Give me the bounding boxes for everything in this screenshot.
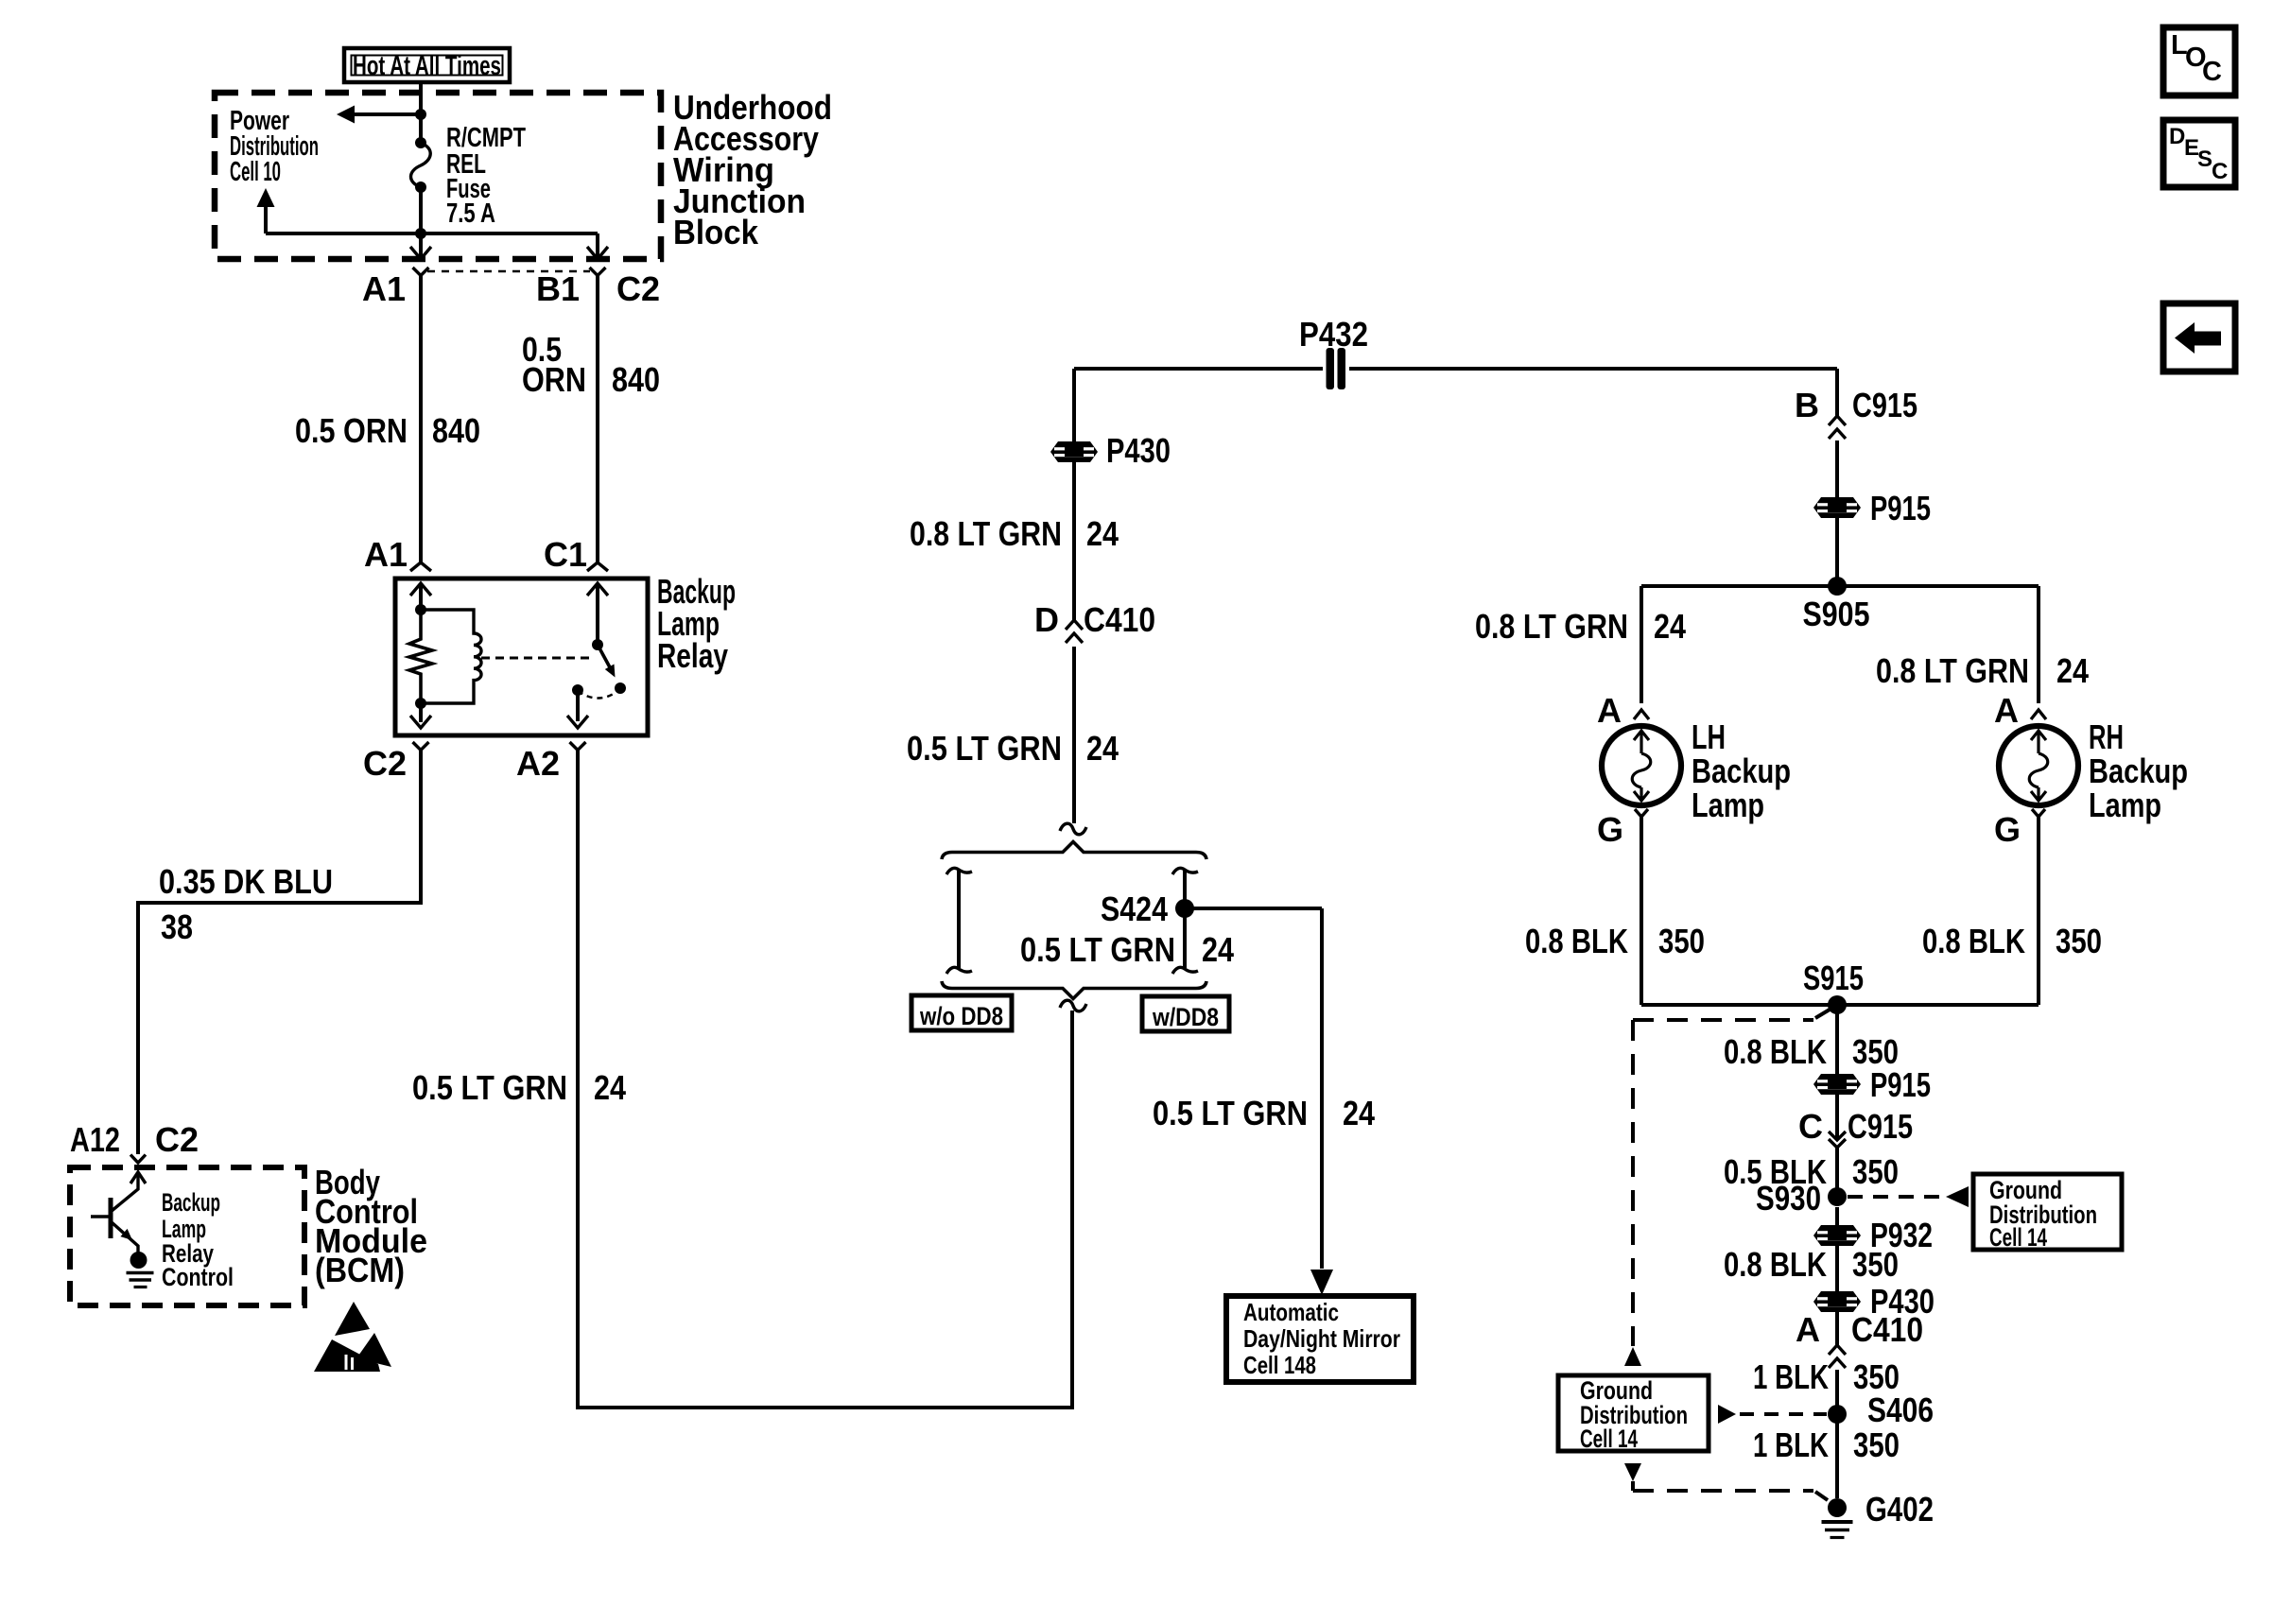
switch movable arm: [598, 645, 616, 678]
connector dashed tie A1-B1: [427, 270, 590, 273]
svg-text:Backup: Backup: [162, 1188, 220, 1217]
node splice S930: [1828, 1187, 1847, 1206]
svg-text:0.8 BLK: 0.8 BLK: [1922, 922, 2025, 960]
label box Automatic Day/Night Mirror Cell 148: [1226, 1296, 1414, 1382]
label box w/DD8: [1142, 996, 1229, 1031]
svg-text:24: 24: [1086, 729, 1119, 768]
svg-text:C: C: [1798, 1107, 1823, 1146]
connector C2 pin A1 of junction block: [413, 268, 429, 276]
svg-text:A: A: [1597, 691, 1622, 730]
node coil top junction: [415, 604, 426, 615]
label Body Control Module (BCM): [315, 1163, 427, 1289]
svg-text:38: 38: [161, 907, 193, 946]
wire label 1 BLK 350 (above S406): [1753, 1357, 1900, 1396]
pin arrow into BCM: [130, 1172, 146, 1183]
svg-text:Cell 148: Cell 148: [1243, 1351, 1316, 1379]
connector C410 pin D (double chevron): [1066, 620, 1083, 643]
ESD sensitivity symbol: [314, 1302, 391, 1372]
svg-text:0.5 LT GRN: 0.5 LT GRN: [412, 1068, 567, 1107]
svg-text:C: C: [2212, 159, 2228, 184]
svg-text:7.5 A: 7.5 A: [446, 199, 495, 229]
arrow down at A1 terminal: [410, 247, 431, 259]
svg-text:LH: LH: [1692, 717, 1726, 756]
svg-text:0.8 BLK: 0.8 BLK: [1724, 1032, 1827, 1071]
svg-text:G: G: [1994, 810, 2021, 849]
svg-text:G402: G402: [1865, 1490, 1934, 1529]
svg-text:G: G: [1597, 810, 1623, 849]
svg-text:0.5 LT GRN: 0.5 LT GRN: [907, 729, 1062, 768]
svg-text:24: 24: [1202, 930, 1234, 969]
transistor Q1 base lead: [91, 1215, 111, 1218]
lamp E2 RH Backup Lamp: [1999, 726, 2078, 805]
wire dashed ground distribution to G402: [1633, 1491, 1828, 1500]
connector chevron into RH lamp: [2031, 710, 2046, 719]
pin arrow A1 inside relay: [410, 583, 431, 610]
svg-text:P432: P432: [1299, 315, 1368, 354]
label Underhood Accessory Wiring Junction Block: [673, 88, 832, 251]
transistor Q1 collector: [112, 1172, 138, 1211]
svg-text:A1: A1: [364, 535, 408, 574]
lamp filament RH: [2029, 731, 2048, 801]
svg-text:Lamp: Lamp: [2089, 786, 2161, 824]
wire w/o DD8 branch bar: [946, 868, 972, 974]
svg-text:0.5 LT GRN: 0.5 LT GRN: [1153, 1094, 1308, 1132]
svg-text:24: 24: [1343, 1094, 1375, 1132]
connector pass-through P932: [1813, 1225, 1861, 1246]
arrow down at C2 pin inside relay: [410, 716, 431, 728]
svg-text:S930: S930: [1756, 1179, 1821, 1218]
wire P932 to P430: [1835, 1246, 1839, 1291]
svg-text:C915: C915: [1852, 386, 1917, 424]
wire coil bottom to C2 pin: [419, 703, 423, 722]
wire C915 to P915: [1835, 441, 1839, 497]
node splice S915: [1828, 995, 1847, 1014]
lamp E1 LH Backup Lamp: [1602, 726, 1681, 805]
connector chevron A1 into relay: [410, 562, 431, 571]
svg-text:350: 350: [1852, 1152, 1899, 1191]
node coil bottom junction: [415, 698, 426, 709]
wire P430 to C410-D: [1072, 462, 1076, 620]
svg-text:C2: C2: [363, 744, 407, 783]
brace variant join (bottom): [942, 981, 1206, 999]
node junction dot power branch: [415, 109, 426, 120]
label box w/o DD8: [911, 995, 1012, 1030]
wire label 0.5 LT GRN 24 in brace: [1020, 930, 1234, 969]
wire dashed throw arc: [578, 689, 620, 699]
svg-text:24: 24: [1086, 514, 1119, 553]
wire label 0.8 LT GRN 24 (RH): [1876, 651, 2089, 690]
wire label 0.8 BLK 350 (LH): [1525, 922, 1705, 960]
svg-text:Day/Night Mirror: Day/Night Mirror: [1243, 1324, 1400, 1353]
wire label 0.5 LT GRN 24 (mirror feed): [1153, 1094, 1375, 1132]
svg-text:Automatic: Automatic: [1243, 1298, 1339, 1326]
wire stub down at B1 feed: [596, 233, 599, 256]
connector C410 pin A (double chevron up): [1829, 1345, 1846, 1368]
wire S905 to RH lamp: [2037, 586, 2040, 703]
wire break squiggle above brace: [1060, 823, 1086, 835]
svg-text:P915: P915: [1870, 489, 1931, 527]
connector pass-through P915 (ground path): [1813, 1074, 1861, 1095]
wire label 0.8 BLK 350 (below P932): [1724, 1245, 1899, 1284]
svg-text:A1: A1: [362, 269, 406, 308]
svg-text:Cell 10: Cell 10: [230, 157, 281, 187]
node switch pivot: [592, 639, 603, 650]
svg-text:350: 350: [2056, 922, 2102, 960]
transistor Q1 base bar: [109, 1198, 113, 1238]
svg-text:S: S: [2197, 147, 2212, 172]
label RH Backup Lamp: [2089, 717, 2188, 824]
connector C915 pin B (double chevron): [1829, 416, 1846, 439]
svg-text:C915: C915: [1848, 1107, 1913, 1146]
svg-text:0.8 LT GRN: 0.8 LT GRN: [910, 514, 1062, 553]
svg-text:C410: C410: [1084, 600, 1155, 639]
wire S905 to LH lamp: [1640, 586, 1643, 703]
svg-text:0.8 BLK: 0.8 BLK: [1525, 922, 1628, 960]
connector chevron C1 into relay: [587, 562, 608, 571]
svg-text:C1: C1: [544, 535, 587, 574]
wire A1 to relay: [419, 276, 423, 563]
wire dashed actuation link: [481, 657, 594, 660]
value label R/CMPT REL Fuse 7.5 A: [446, 123, 526, 229]
wire dashed S930 to ground distribution: [1848, 1195, 1944, 1199]
svg-text:A12: A12: [70, 1120, 120, 1159]
svg-text:Backup: Backup: [1692, 752, 1791, 790]
svg-text:840: 840: [432, 411, 480, 450]
pin arrow C1 inside relay: [587, 583, 608, 645]
wire RH lamp to S915: [2037, 817, 2040, 1005]
svg-text:w/o DD8: w/o DD8: [919, 1002, 1003, 1030]
connector pin A2 below relay: [570, 742, 586, 751]
wire LH lamp to S915: [1640, 817, 1643, 1005]
label LH Backup Lamp: [1692, 717, 1791, 824]
connector pass-through P915: [1813, 497, 1861, 518]
label Backup Lamp Relay: [657, 572, 736, 675]
svg-text:P430: P430: [1106, 431, 1171, 470]
svg-text:S424: S424: [1101, 890, 1168, 928]
label box Ground Distribution Cell 14 (right): [1973, 1174, 2122, 1252]
arrow up into ground distribution box: [1624, 1347, 1641, 1366]
wire break squiggle below brace: [1060, 1000, 1086, 1011]
svg-text:0.35 DK BLU: 0.35 DK BLU: [159, 862, 333, 901]
wire C2 relay to BCM: [138, 751, 421, 1155]
wire S915 to P915: [1835, 1005, 1839, 1074]
svg-text:350: 350: [1852, 1245, 1899, 1284]
svg-text:D: D: [1034, 600, 1059, 639]
svg-text:ORN: ORN: [522, 360, 586, 399]
label box Ground Distribution Cell 14 (left): [1558, 1375, 1709, 1453]
wire branch to Power Distribution: [354, 112, 421, 116]
svg-text:Relay: Relay: [657, 636, 728, 675]
arrow to Power Distribution Cell 10: [337, 106, 355, 124]
relay K1 Backup Lamp Relay box: [395, 579, 648, 735]
brace variant split (top): [942, 842, 1206, 860]
icon box LOC: [2163, 27, 2235, 95]
wire B1/C2 to relay: [596, 276, 599, 563]
svg-text:Hot At All Times: Hot At All Times: [353, 51, 501, 81]
wire P915 to C915-C: [1835, 1095, 1839, 1140]
component box U2 Body Control Module (dashed): [70, 1167, 304, 1305]
connector pass-through P430 (ground path): [1813, 1291, 1861, 1312]
wire from Hot At All Times into junction block: [419, 82, 423, 143]
svg-text:S915: S915: [1803, 959, 1864, 997]
svg-text:24: 24: [2056, 651, 2089, 690]
label Power Distribution Cell 10: [230, 106, 319, 187]
svg-text:A: A: [1994, 691, 2019, 730]
wire dashed S915 to ground distribution (vertical): [1631, 1020, 1635, 1346]
svg-text:0.8 LT GRN: 0.8 LT GRN: [1876, 651, 2029, 690]
wire P432 riser: [1072, 369, 1076, 441]
wire down to C915-B: [1835, 369, 1839, 416]
resistor relay coil suppression: [409, 610, 432, 703]
wire horizontal feed inside junction block: [266, 232, 598, 235]
wire label 0.5 ORN 840 (left): [295, 411, 480, 450]
arrow up to Power Distribution Cell 10: [257, 188, 275, 233]
svg-text:0.5 LT GRN: 0.5 LT GRN: [1020, 930, 1175, 969]
wire label 0.8 BLK 350 (RH): [1922, 922, 2102, 960]
connector pin C2 below relay: [413, 742, 429, 751]
ground G402: [1822, 1498, 1853, 1538]
node switch throw contact: [572, 684, 583, 696]
wire label 0.8 LT GRN 24 (LH): [1475, 607, 1686, 646]
svg-text:Lamp: Lamp: [1692, 786, 1764, 824]
svg-text:B1: B1: [536, 269, 580, 308]
svg-text:0.8 BLK: 0.8 BLK: [1724, 1245, 1827, 1284]
svg-text:C2: C2: [155, 1120, 199, 1159]
wire dashed to S406: [1740, 1412, 1827, 1416]
arrow down from ground distribution box: [1624, 1463, 1641, 1491]
icon box back arrow: [2163, 303, 2235, 371]
wire label 0.8 LT GRN 24 above C410: [910, 514, 1119, 553]
wire stub down at A1 feed: [419, 233, 423, 256]
wire label 0.5 BLK 350: [1724, 1152, 1899, 1191]
svg-text:C410: C410: [1851, 1310, 1923, 1349]
svg-text:S406: S406: [1867, 1391, 1934, 1429]
svg-text:0.5 ORN: 0.5 ORN: [295, 411, 408, 450]
svg-text:S905: S905: [1803, 595, 1870, 633]
arrow down at A2 pin inside relay: [567, 716, 588, 728]
wire C410-D down to brace: [1072, 647, 1076, 823]
svg-text:0.8 LT GRN: 0.8 LT GRN: [1475, 607, 1628, 646]
connector pin G below RH lamp: [2032, 809, 2045, 817]
svg-text:24: 24: [594, 1068, 626, 1107]
node emitter ground dot: [130, 1252, 147, 1269]
label Backup Lamp Relay Control: [162, 1188, 234, 1291]
wire label 1 BLK 350 (below S406): [1753, 1425, 1900, 1464]
arrow down at B1 terminal: [587, 247, 608, 259]
icon box DESC: [2163, 120, 2235, 187]
connector grommet P432: [1323, 348, 1349, 389]
svg-text:P915: P915: [1870, 1065, 1931, 1104]
svg-text:C: C: [2202, 57, 2222, 87]
svg-text:D: D: [2169, 124, 2185, 149]
wire label 0.8 BLK 350 (below S915): [1724, 1032, 1899, 1071]
connector pin G below LH lamp: [1635, 809, 1648, 817]
wire label 0.5 LT GRN 24 below C410: [907, 729, 1119, 768]
wire w/DD8 branch bar: [1172, 868, 1198, 974]
wire C410 to G402: [1835, 1370, 1839, 1498]
svg-text:1 BLK: 1 BLK: [1753, 1357, 1829, 1396]
svg-text:RH: RH: [2089, 717, 2124, 756]
node lower junction dot: [415, 228, 426, 239]
wire P432 horizontal run: [1074, 367, 1837, 371]
svg-text:350: 350: [1658, 922, 1705, 960]
svg-text:A: A: [1796, 1310, 1820, 1349]
arrow from ground distribution to S406: [1718, 1405, 1736, 1424]
svg-text:(BCM): (BCM): [315, 1251, 405, 1289]
node splice S406: [1828, 1405, 1847, 1424]
arrow to S930 from ground distribution: [1946, 1186, 1969, 1207]
connector C915 pin C (double chevron down): [1829, 1132, 1846, 1148]
svg-text:w/DD8: w/DD8: [1152, 1003, 1219, 1031]
inductor relay coil: [421, 610, 481, 703]
svg-text:Backup: Backup: [2089, 752, 2188, 790]
svg-text:Block: Block: [673, 213, 759, 251]
connector pin C2 into BCM: [130, 1155, 146, 1164]
svg-text:B: B: [1795, 386, 1819, 424]
svg-text:350: 350: [1853, 1425, 1900, 1464]
svg-text:Cell 14: Cell 14: [1989, 1223, 2047, 1252]
svg-text:1 BLK: 1 BLK: [1753, 1425, 1829, 1464]
svg-text:Control: Control: [162, 1263, 234, 1291]
connector pass-through P430: [1050, 441, 1098, 462]
wire throw contact to A2 pin: [576, 690, 580, 721]
wire fuse to lower junction: [419, 187, 423, 233]
wire S915 collection bar: [1641, 1003, 2039, 1007]
node splice S905: [1828, 577, 1847, 596]
label box "Hot At All Times": [344, 48, 510, 82]
svg-text:Cell 14: Cell 14: [1580, 1425, 1638, 1453]
wire S424 branch down to mirror: [1320, 908, 1324, 1269]
fuse R/CMPT REL 7.5A: [411, 137, 431, 193]
connector pin B1 of junction block: [590, 268, 606, 276]
wire S930 to P932: [1835, 1207, 1839, 1225]
svg-text:840: 840: [612, 360, 660, 399]
ground symbol inside BCM: [127, 1273, 154, 1287]
svg-text:24: 24: [1654, 607, 1686, 646]
component box U1 Underhood Accessory Wiring Junction Block (dashed): [215, 93, 661, 259]
lamp filament LH: [1632, 731, 1651, 801]
connector chevron into LH lamp: [1634, 710, 1649, 719]
wire P915 to S905: [1835, 518, 1839, 586]
wire S424 to mirror feed: [1185, 907, 1322, 910]
wire P430 to C410-A: [1835, 1312, 1839, 1345]
wire A2 relay output to w/o DD8 branch: [578, 751, 1072, 1408]
wire label 0.5 ORN 840 (right): [522, 330, 660, 399]
wire dashed S915 to ground distribution (horizontal): [1633, 1010, 1830, 1020]
arrow into mirror box: [1310, 1270, 1333, 1295]
node switch rest contact: [615, 682, 626, 694]
wire S905 distribution bar: [1641, 584, 2039, 588]
transistor Q1 emitter with arrow: [112, 1222, 138, 1253]
node splice S424: [1175, 899, 1194, 918]
wire C915 to S930: [1835, 1148, 1839, 1188]
svg-text:A2: A2: [516, 744, 560, 783]
wire label 0.5 LT GRN 24 on A2 wire: [412, 1068, 626, 1107]
svg-text:C2: C2: [616, 269, 660, 308]
